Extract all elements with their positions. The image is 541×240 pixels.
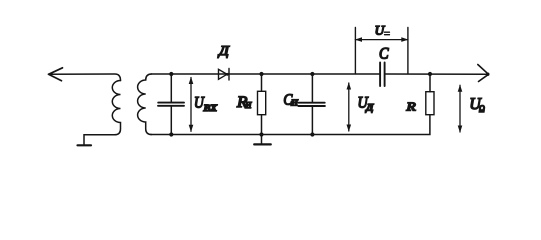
ground Rn stub	[261, 135, 263, 144]
resistor R body	[426, 92, 434, 115]
node tuning bottom	[169, 132, 173, 136]
capacitor Cn branch top	[311, 74, 313, 102]
wire top rail	[151, 73, 379, 75]
capacitor Ck tuning branch top	[170, 74, 172, 102]
antenna arrow	[49, 68, 63, 81]
svg-text:R: R	[405, 100, 416, 114]
svg-text:C: C	[379, 46, 389, 63]
inductor secondary coil	[138, 74, 152, 135]
resistor R branch	[429, 74, 431, 92]
wire primary to ground	[84, 135, 115, 145]
ground Rn bar	[254, 143, 271, 145]
wire antenna lead	[49, 74, 121, 81]
node R top	[428, 72, 432, 76]
bracket left of U=	[354, 28, 356, 74]
capacitor Cn branch bottom	[311, 106, 313, 134]
measurement arrow Ud	[348, 83, 350, 131]
capacitor C plates	[380, 63, 385, 87]
node Cn bottom	[310, 132, 314, 136]
svg-text:ВХ: ВХ	[202, 104, 217, 114]
capacitor Cn plates	[298, 103, 325, 106]
capacitor Ck tuning branch bottom	[170, 106, 172, 134]
measurement arrow Uomega	[459, 85, 461, 132]
measurement arrow U=	[355, 39, 408, 41]
capacitor Ck tuning plates	[158, 103, 184, 106]
node tuning top	[169, 72, 173, 76]
svg-text:Ω: Ω	[479, 104, 485, 115]
bracket right of U=	[407, 28, 409, 74]
node Cn top	[310, 72, 314, 76]
wire bottom rail	[151, 115, 430, 135]
inductor primary coil	[112, 81, 120, 135]
measurement arrow Uvx	[190, 78, 192, 132]
node Rn top	[259, 72, 263, 76]
ground left	[78, 144, 92, 146]
svg-text:Н: Н	[290, 98, 299, 108]
node output tip dot	[486, 73, 489, 76]
arrow output	[478, 65, 489, 82]
diode D	[219, 69, 230, 81]
svg-text:Д: Д	[217, 43, 231, 58]
node Rn bottom	[259, 132, 263, 136]
svg-text:Н: Н	[244, 100, 252, 110]
resistor Rn body	[258, 91, 266, 114]
resistor Rn branch	[261, 74, 263, 135]
wire top rail right of capacitor C	[385, 73, 487, 75]
svg-text:Д: Д	[365, 103, 375, 114]
